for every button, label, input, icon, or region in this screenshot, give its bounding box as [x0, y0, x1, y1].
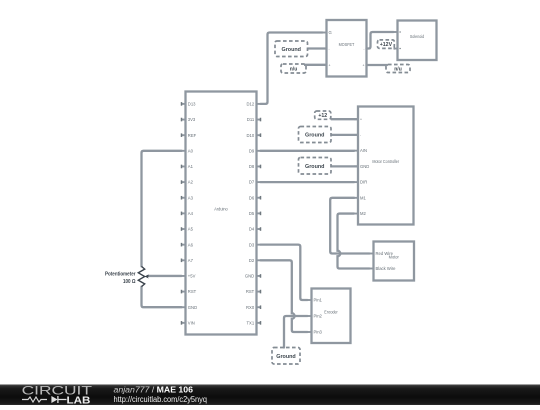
svg-text:A7: A7: [188, 258, 194, 263]
svg-text:A3: A3: [188, 195, 194, 200]
svg-text:Ground: Ground: [305, 164, 324, 170]
n/u flag (MOSFET right lower pin): [386, 65, 410, 73]
svg-text:D3: D3: [249, 242, 255, 247]
svg-text:100 Ω: 100 Ω: [123, 279, 136, 285]
Encoder U6: [308, 289, 351, 344]
footer bar: [0, 384, 540, 405]
svg-text:A0: A0: [188, 148, 194, 153]
svg-text:Black Wire: Black Wire: [376, 266, 397, 271]
svg-text:G: G: [329, 30, 332, 35]
svg-text:GND: GND: [188, 305, 197, 310]
svg-text:GND: GND: [360, 164, 369, 169]
wire: ground flag to Encoder Pin2: [284, 316, 308, 348]
svg-text:Pin2: Pin2: [314, 314, 323, 319]
svg-text:D2: D2: [249, 258, 255, 263]
svg-text:-: -: [329, 47, 330, 51]
svg-text:Motor Controller: Motor Controller: [372, 159, 399, 164]
svg-text:Pin3: Pin3: [314, 330, 323, 335]
svg-text:DIR: DIR: [360, 180, 367, 185]
svg-text:+12: +12: [318, 113, 327, 119]
svg-text:RST: RST: [246, 289, 255, 294]
wire: Motor Controller M2 to Motor Black Wire (hops over M1 wire): [338, 214, 370, 269]
svg-text:A5: A5: [188, 227, 194, 232]
svg-text:A4: A4: [188, 211, 194, 216]
+12V flag (Solenoid pin 2): [378, 40, 395, 49]
svg-text:D5: D5: [249, 211, 255, 216]
svg-text:A1: A1: [188, 164, 194, 169]
svg-text:+12V: +12V: [380, 42, 393, 48]
+12 flag (Motor Controller +): [315, 111, 358, 119]
svg-text:-: -: [363, 47, 364, 51]
svg-text:-: -: [360, 133, 361, 137]
svg-text:anjan777 / MAE 106: anjan777 / MAE 106: [114, 385, 194, 394]
CircuitLab logo: [22, 384, 93, 407]
svg-text:Red Wire: Red Wire: [376, 251, 394, 256]
svg-text:LAB: LAB: [67, 395, 91, 405]
svg-text:A6: A6: [188, 242, 194, 247]
svg-text:Pin1: Pin1: [314, 298, 323, 303]
svg-text:D6: D6: [249, 195, 255, 200]
svg-text:D4: D4: [249, 227, 255, 232]
svg-text:D13: D13: [188, 102, 196, 107]
svg-text:http://circuitlab.com/c2y5nyq: http://circuitlab.com/c2y5nyq: [114, 395, 208, 404]
svg-text:M2: M2: [360, 211, 366, 216]
svg-text:D7: D7: [249, 180, 255, 185]
svg-text:MOSFET: MOSFET: [339, 42, 355, 47]
potentiometer R1 100 ohm: [105, 266, 149, 286]
svg-text:Potentiometer: Potentiometer: [105, 272, 136, 278]
svg-text:AIN: AIN: [360, 148, 367, 153]
wire: MOSFET right lower pin to n/u flag: [367, 64, 388, 66]
wire: MOSFET drain to Solenoid pin 1: [367, 32, 394, 49]
Motor U5: [370, 242, 415, 281]
svg-text:n/u: n/u: [290, 67, 298, 73]
svg-text:Ground: Ground: [305, 133, 324, 139]
Motor Controller U4: [354, 107, 414, 225]
svg-text:VIN: VIN: [188, 320, 195, 325]
svg-text:M1: M1: [360, 195, 366, 200]
wire: Arduino D12 to MOSFET G: [261, 33, 323, 104]
svg-text:TX1: TX1: [247, 320, 255, 325]
Arduino U1: [182, 92, 261, 335]
svg-text:Ground: Ground: [282, 47, 301, 53]
ground flag (Motor Controller GND): [299, 158, 359, 175]
MOSFET module U2: [323, 20, 371, 77]
svg-text:Ground: Ground: [276, 354, 295, 360]
svg-text:GND: GND: [245, 274, 254, 279]
svg-text:Encoder: Encoder: [324, 309, 338, 314]
svg-text:A2: A2: [188, 180, 194, 185]
wire: Arduino D9 to Motor Controller AIN: [261, 150, 355, 152]
svg-text:3V3: 3V3: [188, 117, 196, 122]
svg-text:REF: REF: [188, 133, 197, 138]
svg-text:+: +: [360, 118, 362, 122]
ground flag (Encoder Pin2): [272, 348, 300, 365]
svg-text:RST: RST: [188, 289, 197, 294]
wire: Arduino D3 to Encoder Pin1: [261, 245, 308, 300]
svg-text:RX0: RX0: [246, 305, 255, 310]
svg-text:+: +: [363, 63, 365, 67]
svg-text:D12: D12: [247, 102, 255, 107]
Solenoid module U3: [394, 21, 437, 61]
wire: Arduino D2 to Encoder Pin3 (hops over ground wire): [261, 260, 308, 332]
footer text: [114, 385, 208, 404]
svg-text:D9: D9: [249, 148, 255, 153]
n/u flag (MOSFET left lower pin): [281, 64, 327, 73]
svg-text:D8: D8: [249, 164, 255, 169]
svg-text:n/u: n/u: [394, 67, 402, 73]
wire: Arduino +5V to potentiometer wiper: [149, 275, 182, 277]
wire: potentiometer bottom to Arduino GND: [142, 287, 182, 308]
ground flag (MOSFET source): [275, 41, 327, 57]
wire: Arduino A0 to potentiometer top: [142, 151, 182, 267]
svg-text:Solenoid: Solenoid: [410, 34, 425, 39]
svg-text:+: +: [329, 63, 331, 67]
svg-text:D10: D10: [247, 133, 255, 138]
svg-text:Arduino: Arduino: [214, 207, 228, 212]
wire: Arduino D7 to Motor Controller DIR: [261, 181, 355, 183]
svg-text:+5V: +5V: [188, 274, 196, 279]
svg-text:D11: D11: [247, 117, 255, 122]
ground flag (Motor Controller -): [299, 127, 359, 143]
wire: Motor Controller M1 to Motor Red Wire: [330, 198, 369, 254]
